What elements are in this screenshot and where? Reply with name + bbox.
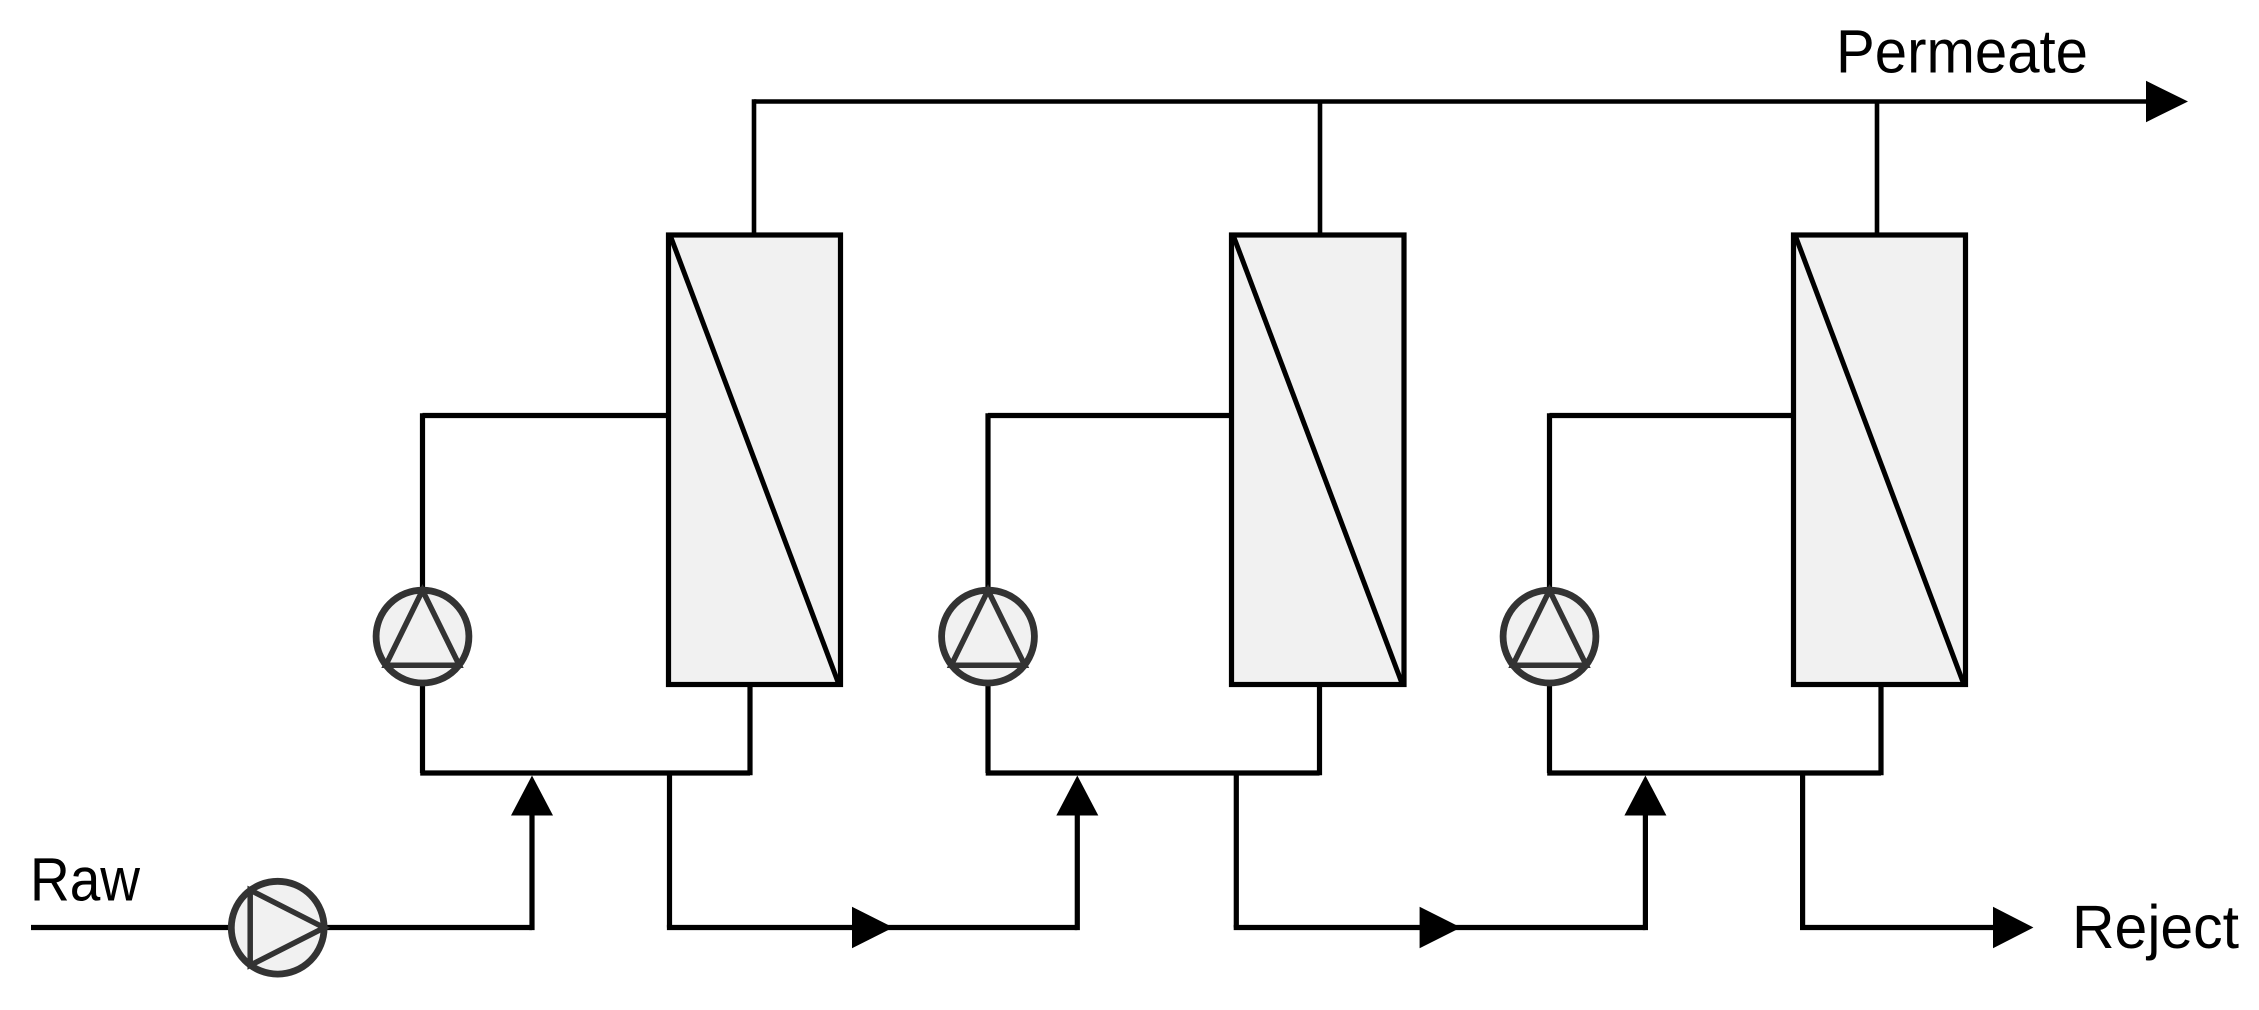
wire: stage 3 reject takeoff — [1800, 773, 1805, 928]
arrowhead: stage 3 feed into loop — [1624, 776, 1666, 816]
arrowhead: stage 2 to stage 3 flow — [1420, 907, 1461, 948]
recirculation pump P2 impeller triangle — [951, 590, 1025, 665]
wire: stage 3 feed riser — [1643, 814, 1648, 930]
membrane M1 diagonal — [671, 238, 838, 683]
recirculation pump P1 impeller triangle — [386, 590, 460, 665]
wire: stage 3 loop top — [1550, 413, 1794, 418]
wire: stage 2 to stage 3 transfer — [1234, 925, 1646, 930]
wire: stage 2 loop top — [988, 413, 1232, 418]
svg-text:Permeate: Permeate — [1836, 18, 2088, 86]
wire: permeate riser stage 2 — [1318, 102, 1323, 238]
arrowhead: stage 1 to stage 2 flow — [852, 907, 893, 948]
wire: stage 1 feed riser — [529, 814, 534, 930]
feed pump P0 impeller triangle — [250, 890, 324, 965]
arrowhead: stage 1 feed into loop — [511, 776, 553, 816]
recirculation pump P2 body — [942, 590, 1035, 683]
wire: stage 1 to stage 2 transfer — [667, 925, 1077, 930]
svg-text:Reject: Reject — [2072, 893, 2239, 961]
membrane M2 diagonal — [1234, 238, 1402, 683]
wire: stage 3 loop left vertical — [1547, 413, 1552, 773]
arrowhead: stage 2 feed into loop — [1056, 776, 1098, 816]
wire: stage 1 loop top — [423, 413, 669, 418]
recirculation pump P3 body — [1503, 590, 1596, 683]
wire: reject outlet line — [1800, 925, 1995, 930]
wire: raw feed line — [31, 925, 532, 930]
wire: stage 2 loop bottom — [986, 770, 1320, 775]
recirculation pump P1 body — [376, 590, 469, 683]
membrane M3 diagonal — [1796, 238, 1963, 683]
wire: stage 2 feed riser — [1075, 814, 1080, 930]
membrane module M2 — [1232, 235, 1405, 685]
arrowhead: permeate outlet — [2146, 81, 2188, 122]
wire: permeate riser stage 3 — [1875, 102, 1880, 238]
wire: stage 1 module outlet drop — [747, 685, 752, 776]
wire: stage 2 reject takeoff — [1234, 773, 1239, 928]
wire: stage 3 module outlet drop — [1878, 685, 1883, 776]
svg-text:Raw: Raw — [30, 846, 141, 914]
wire: permeate header line — [754, 99, 2150, 104]
arrowhead: reject outlet — [1993, 907, 2033, 948]
recirculation pump P3 impeller triangle — [1513, 590, 1587, 665]
wire: stage 1 reject takeoff — [667, 773, 672, 928]
wire: stage 1 loop bottom — [420, 770, 750, 775]
wire: stage 2 module outlet drop — [1317, 685, 1322, 776]
wire: stage 3 loop bottom — [1547, 770, 1881, 775]
membrane module M3 — [1794, 235, 1966, 685]
wire: stage 2 loop left vertical — [985, 413, 990, 773]
wire: permeate riser stage 1 — [752, 99, 757, 237]
wire: stage 1 loop left vertical — [420, 413, 425, 773]
membrane module M1 — [669, 235, 841, 685]
feed pump P0 body — [231, 881, 324, 974]
